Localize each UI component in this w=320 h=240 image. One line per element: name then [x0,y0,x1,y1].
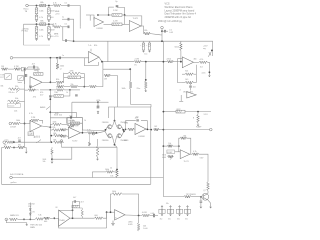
capacitor C5 0.1 [165,30,166,33]
svg-text:4.7k: 4.7k [53,24,57,26]
resistor R66 sus tap [51,149,53,155]
wire node down [161,31,163,41]
power column 2 arrow [170,206,172,209]
svg-text:22k: 22k [52,127,55,129]
junction R32 line tap [145,61,147,63]
capacitor C22 out [154,214,155,217]
terminal J1 reso input [10,57,13,60]
wire R36 link [114,171,118,173]
wire terminal stub [161,29,163,31]
wire sus corner [75,112,77,117]
resistor R45 [4,146,12,149]
pot arrow mixer [37,140,42,143]
svg-text:100k: 100k [122,88,126,90]
capacitor C9 [29,86,32,87]
wire U4 fb loop [84,58,98,66]
wire U2 fb top [129,16,142,26]
wire U2 in stub [125,23,130,25]
box module top edge [109,107,152,118]
resistor R63 100k [112,193,123,196]
resistor divider 2l lower [35,34,38,39]
pot arrow tone box2 [19,76,23,79]
junction U1 fb node [124,14,126,16]
capacitor C8 tone bus [26,74,27,77]
junction y69 node [129,68,131,70]
resistor R21 240k [56,63,59,69]
wire R24 r [81,76,85,78]
svg-text:BASS: BASS [40,106,46,109]
wire U10 fb [111,194,112,212]
wire chain147 r [24,148,26,151]
resistor R43 row D [53,141,62,144]
wire signal line mid [102,61,134,63]
resistor R33 [128,128,135,131]
wire R7 to node [150,34,162,35]
svg-text:1u: 1u [62,55,64,57]
wire R47 r [80,122,83,124]
resistor R14 series bus2 [176,110,185,113]
op-amp U6A mixer [30,121,42,132]
svg-text:4.7k: 4.7k [39,17,43,19]
junction mod right node [122,129,124,131]
svg-text:35v: 35v [168,219,171,221]
wire U1 out to node [122,15,125,24]
diode D2 [29,213,31,215]
wire R23 l [50,81,56,83]
svg-text:82k: 82k [144,30,147,32]
power column 2 top tick [169,208,171,210]
terminal main input [5,218,8,221]
junction U10 in [106,211,108,213]
wire mv return [6,219,26,222]
wire fb right v [83,73,85,86]
svg-text:TIP 2N3055: TIP 2N3055 [186,194,196,196]
resistor R29 pot 50k [68,125,76,128]
wire R21 top [56,58,59,63]
capacitor C2m mid [68,18,69,21]
wire U1 fb res row [98,14,112,16]
wire r20 link [25,89,29,91]
svg-text:1k2: 1k2 [200,66,203,68]
svg-text:68k: 68k [53,140,56,142]
resistor divider 1l lower [35,15,38,20]
resistor R9 2.2M series [134,60,142,63]
resistor R59 [44,217,50,220]
capacitor C14 [75,95,78,96]
wire rowA l [50,123,52,125]
wire block1 to cap [61,5,68,7]
junction bus1 right end [211,50,213,52]
wire fb row1 out [81,72,85,74]
wire R65 top [138,216,140,223]
resistor R40 row A [52,123,61,126]
wire R39 loop [29,120,32,123]
wire sus row [50,111,76,113]
box vib speed [68,118,83,124]
svg-text:240k: 240k [60,66,64,68]
svg-text:TL071: TL071 [33,90,40,92]
wire U1 fb top loop [108,7,110,15]
svg-text:4n59: 4n59 [50,29,54,31]
wire diamond top links [112,121,117,127]
transistor Q5 modulator [117,134,121,138]
wire cap3 out [67,40,75,43]
power column 1 top tick [161,208,163,210]
resistor R28 box [54,95,63,98]
wire U11 in drop [178,146,180,152]
op-amp U1 LM308 [94,18,104,27]
wire U4 down corner [102,62,104,69]
terminal line2 in [3,141,6,144]
svg-text:2004 @ 12 LxWxD pg: 2004 @ 12 LxWxD pg [158,20,183,23]
wire chain2 m2 [78,86,84,88]
wire R55 tail [207,191,209,194]
svg-text:35v: 35v [160,219,163,221]
pot arrow U11 [170,156,174,160]
svg-text:390k: 390k [56,87,60,89]
svg-text:TDA20: TDA20 [59,219,65,222]
svg-text:P.AMP: P.AMP [196,125,202,128]
op-amp U2 TL071 [129,21,141,32]
wire R18 to bus [20,88,25,90]
resistor R48 in1 [60,129,67,132]
wire R30 link [111,76,118,108]
wire cap1 branch down [79,27,81,29]
svg-text:bass: bass [18,82,22,84]
resistor R19 bass pot [8,100,20,103]
svg-text:0.1: 0.1 [65,24,68,26]
wire divider 1l v2 [36,14,38,15]
wire diamond left node2 [105,131,107,136]
wire C11 out [35,67,38,72]
capacitor C15 [97,107,100,108]
wire block2 to cap [61,26,68,28]
ground arrow column 2 [170,213,172,215]
svg-text:0R22: 0R22 [176,109,180,111]
junction divider 1 b [48,5,50,7]
pot arrow tone box1 [6,75,10,79]
wire U3 fb in [178,58,183,60]
wire divider block 2 top [24,23,54,25]
resistor R36 100k [106,171,114,174]
ground arrow R15 [197,123,199,126]
junction U1 -in [97,14,99,16]
wire R28 r [63,90,70,96]
op-amp U11 [180,150,190,159]
junction divider 2 a [36,23,38,25]
svg-text:100k: 100k [112,191,116,193]
wire R47 l [67,122,71,124]
svg-text:1M: 1M [1,66,4,68]
pot arrow R29 [70,124,75,128]
capacitor C11 [33,66,34,69]
junction U5bus a [49,98,51,100]
wire mid vertical drop [107,41,109,62]
resistor R7 82k [144,32,151,35]
svg-text:10u: 10u [144,54,147,56]
resistor R1a 68k [40,4,46,7]
wire v92 [91,172,93,178]
ground arrow column 4 [187,213,189,215]
wire U6B fb left [66,118,68,124]
svg-text:TL072: TL072 [72,141,77,143]
junction divider 1 a [36,5,38,7]
capacitor C1s coupling [68,4,69,7]
capacitor C17 in2 [18,140,21,141]
svg-text:2.2M: 2.2M [113,10,118,12]
wire R61 top [80,208,83,210]
junction R50 out [96,132,98,134]
wire tone bus seg [24,69,26,84]
wire U5 out [42,81,50,83]
wire node cap stub [162,30,164,32]
wire U11 in l [163,145,167,147]
ground arrow chain147 [25,150,27,153]
wire sus term drop [61,142,63,147]
resistor divider 2l upper [35,27,38,33]
junction row390 b [69,89,71,91]
resistor R15 8ohm load [197,114,200,122]
terminal modulator in [92,132,95,135]
junction U3 out node [209,71,211,73]
wire U9 out [70,217,95,219]
resistor R38 100k input [12,122,21,125]
wire R39 loop2 [39,120,42,123]
wire tone bus vertical [24,69,26,147]
wire U5 tap [49,58,51,83]
junction U11 in [178,145,180,147]
wire U6B fb cap out [72,117,82,119]
junction row470 [97,101,99,103]
wire mod in row [82,129,105,132]
wire Q6 collector [206,193,209,194]
wire U1 fb res out [122,14,125,16]
junction U4 out [101,61,103,63]
svg-text:4.7k: 4.7k [39,36,43,38]
terminal line in [9,122,12,125]
resistor R41 row B [52,129,61,132]
wire U7 out [146,128,151,131]
box mixer small [28,132,34,136]
wire mv link2 [24,218,35,220]
wire R13 end2 [194,82,197,84]
junction bus2 left [163,111,165,113]
svg-text:100k: 100k [124,123,128,125]
resistor R5 2.2M feedback [112,14,122,17]
wire row470 drop [50,102,72,118]
wire module corner [131,105,151,108]
svg-text:2.2M: 2.2M [113,21,118,23]
wire U9 top in [59,209,73,211]
resistor R6 series out [112,23,122,26]
wire signal line mid2 [142,61,168,63]
junction U10 fb in [110,211,112,213]
wire diamond bottom links [112,136,117,145]
wire Q6 emitter [207,199,210,205]
resistor R60 220k [72,205,80,208]
op-amp U3b small [187,92,196,98]
wire U6B fb cap row [67,117,70,119]
svg-text:4.7k: 4.7k [193,151,196,153]
resistor R22 box [34,73,43,76]
svg-text:100k: 100k [105,169,109,171]
junction R8 line [180,61,182,63]
wire U11 fb r [187,138,191,154]
capacitor CE2 electrolytic [148,43,150,50]
junction cap2 bus1 [73,40,75,42]
svg-text:82k: 82k [185,71,188,73]
wire box right edge vertical [150,107,152,185]
op-amp U5 [30,77,42,88]
terminal sus in [60,140,63,143]
op-amp U3 [182,57,193,68]
wire base cap drop [200,197,202,201]
svg-text:600: 600 [44,221,47,223]
wire C11 wire [28,66,33,68]
wire divider 2r v2 [48,32,50,33]
wire bus1 horizontal [75,41,213,56]
ground arrow divider 1r [48,20,50,22]
wire U1 -in stub [90,15,94,20]
wire line2 link [14,141,51,143]
resistor R51 small [88,142,90,146]
junction bus tap U11 [163,145,165,147]
wire mix bus v [49,124,51,142]
svg-text:4k66: 4k66 [162,157,166,159]
wire U11 out r [199,154,208,182]
junction R34 bus [163,129,165,131]
junction divider 2 b [48,23,50,25]
svg-text:3k9: 3k9 [185,79,188,81]
svg-text:82k: 82k [94,45,97,47]
resistor R16 input 1M [1,68,8,71]
wire R15 top [197,112,199,115]
wire R28 l [50,95,54,97]
wire U3 out [194,61,199,63]
svg-text:10n: 10n [193,87,196,89]
resistor divider 1r lower [48,15,51,20]
svg-text:2k2: 2k2 [97,108,100,110]
svg-text:0.05: 0.05 [169,32,173,34]
box tone control 2 [18,76,24,81]
svg-text:2.2M: 2.2M [135,58,140,60]
diode D1 [29,209,31,211]
wire R31 bottom [130,89,132,105]
svg-text:47k: 47k [33,97,36,99]
junction mod left node [105,129,107,131]
svg-text:LM308: LM308 [139,136,146,138]
svg-text:220k: 220k [70,120,74,122]
svg-text:15k: 15k [71,84,74,86]
wire line in link [21,123,31,125]
wire signal line mid3 [174,61,183,63]
svg-text:gnd bus: gnd bus [11,182,17,184]
svg-text:2N4360: 2N4360 [102,140,109,142]
capacitor C13 on bus [49,96,52,97]
ground arrow divider 2l [36,38,38,40]
power column 4 arrow [187,206,189,209]
wire chain147 m [11,147,18,149]
wire zener col v [29,203,31,220]
resistor divider 2r upper [48,27,51,33]
wire chain2 r [84,86,89,88]
power column 1 arrow [161,206,163,209]
wire fb cap stub [190,83,192,86]
capacitor C4 2p feedback [116,6,119,7]
pot arrow R18 [16,90,20,93]
junction bus2 node [197,111,199,113]
svg-text:2.2M: 2.2M [31,117,36,119]
resistor R58 [35,218,44,221]
wire U10 out [125,214,142,217]
wire diamond right node2 [122,131,124,136]
capacitor bank 4 [184,209,190,213]
resistor R30 1M [104,74,111,77]
resistor divider 2r lower [48,34,51,39]
resistor R24 fb [68,76,81,79]
resistor R54 out [192,153,199,156]
resistor R52b pot [168,155,174,158]
resistor R26 [89,85,97,88]
resistor R46 [18,146,25,149]
wire u1 in feed v [89,15,91,21]
wire tone row2 [20,68,23,70]
capacitor CE1 electrolytic [142,43,144,50]
svg-text:1u: 1u [62,17,64,19]
svg-text:4n59: 4n59 [50,11,54,13]
svg-text:x2: x2 [60,68,62,70]
svg-text:TL071: TL071 [133,18,140,20]
wire y69 mid [103,68,130,70]
svg-text:4n7: 4n7 [135,117,138,119]
terminal J2 power [10,176,13,179]
wire U6A out [42,126,51,127]
wire block2 drop to rc [52,24,54,27]
ground arrow mv [26,223,28,226]
junction U5bus b [49,111,51,113]
wire R50 out [95,132,97,134]
wire chain2 m [64,86,70,88]
wire R34 out [159,129,163,131]
resistor R31 vert [129,81,132,89]
wire U1 out [104,23,113,25]
resistor R23 82k [56,81,64,84]
capacitor C10 series line [59,57,60,60]
wire u3b tbar [179,100,183,102]
resistor R42 row C [53,134,62,137]
svg-text:33k: 33k [18,145,21,147]
svg-text:LM308: LM308 [97,28,104,30]
transistor Q2 modulator [108,125,112,129]
ground arrow divider 1l [36,20,38,22]
svg-text:MAIN VOL: MAIN VOL [10,214,19,217]
svg-text:470k: 470k [70,70,74,72]
wire rowA r [62,123,68,125]
svg-text:reg: reg [203,48,206,50]
wire U6B in1 [67,129,69,131]
wire mv link [18,218,24,220]
wire U10 in row [107,211,115,213]
svg-text:M.DEP: M.DEP [167,152,172,154]
wire mod out [124,129,126,131]
wire U4 out [99,57,102,62]
resistor R39 fb mixer [31,119,39,122]
box tone control 1 [5,74,12,80]
junction R32 top [145,79,147,81]
wire U9 out r [103,212,107,218]
transistor Q6 output [202,193,209,200]
svg-text:D+00: D+00 [143,228,147,230]
